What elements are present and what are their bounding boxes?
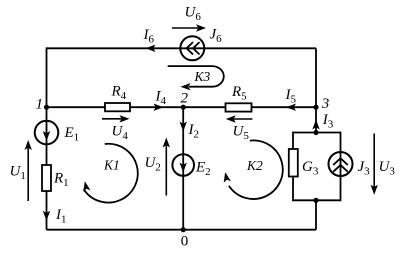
wire: right rail from top rail down to node 3 xyxy=(315,48,317,107)
voltage arrow U2 pointing up xyxy=(165,145,167,196)
svg-text:1: 1 xyxy=(36,97,44,113)
resistor R4 xyxy=(105,103,130,111)
wire: node 3 down to parallel group top junction xyxy=(315,107,317,132)
mesh loop K1 arrow (clockwise arc) xyxy=(84,144,138,203)
EMF source E1 circle xyxy=(35,121,59,145)
wire: G3 branch vertical xyxy=(292,132,294,202)
svg-text:K1: K1 xyxy=(103,158,120,173)
current source J3 double chevron pointing up xyxy=(333,158,348,165)
conductance G3 (resistor box) xyxy=(289,149,298,177)
voltage arrow U3 pointing down xyxy=(373,134,375,188)
node 3 junction dot xyxy=(313,105,318,110)
node 1 junction dot xyxy=(44,105,49,110)
wire: middle branch node 2 down through E2 to node 0 xyxy=(182,107,184,230)
node 2 junction dot xyxy=(181,105,186,110)
svg-text:0: 0 xyxy=(181,233,189,249)
EMF source E1 internal arrow pointing down xyxy=(43,131,50,141)
wire: left rail down to node 1 xyxy=(46,47,48,107)
wire: middle rail node 1 to node 2 xyxy=(47,106,184,108)
current arrow I3 on wire pointing up toward node 3 xyxy=(312,120,319,130)
voltage arrow U6 pointing right xyxy=(172,27,199,29)
svg-text:K3: K3 xyxy=(194,69,211,84)
wire: bottom rail through node 0 xyxy=(47,229,317,231)
voltage arrow U4 pointing right xyxy=(102,118,123,120)
resistor R5 xyxy=(226,103,252,111)
current arrow I1 on wire pointing down xyxy=(43,211,50,221)
mesh loop K3 arrow (flattened U-turn pointing left) xyxy=(168,66,224,87)
wire: J3 branch vertical xyxy=(340,132,342,202)
voltage arrow U1 pointing up xyxy=(27,147,29,201)
wire: parallel group bottom edge xyxy=(293,199,341,201)
current arrow I6 on top rail pointing left xyxy=(146,45,156,52)
wire: top rail from above node 1 to above node 3 xyxy=(47,47,317,49)
mesh loop K2 arrow (clockwise arc) xyxy=(229,140,283,199)
wire: parallel group top edge xyxy=(293,132,341,134)
wire: middle rail node 2 to node 3 xyxy=(183,106,316,108)
wire: left branch node 1 down through E1 and R1 xyxy=(46,107,48,230)
current source J6 circle xyxy=(180,36,204,60)
current arrow I4 on wire pointing right xyxy=(154,104,164,111)
voltage arrow U5 pointing left xyxy=(233,118,252,120)
wire: parallel group bottom junction down to bottom rail xyxy=(315,200,317,229)
EMF source E2 circle xyxy=(172,154,194,176)
svg-text:3: 3 xyxy=(321,96,330,112)
svg-text:K2: K2 xyxy=(246,158,263,173)
current arrow I2 on wire pointing down xyxy=(180,122,187,132)
resistor R1 xyxy=(42,165,51,191)
current source J6 double chevron pointing left xyxy=(187,42,194,54)
current arrow I5 on wire pointing left xyxy=(286,104,296,111)
svg-text:2: 2 xyxy=(181,91,189,107)
EMF source E2 internal arrow pointing down xyxy=(180,163,187,173)
current source J3 circle xyxy=(329,152,353,176)
junction dot at bottom of parallel group xyxy=(313,198,318,203)
junction dot at top of parallel group xyxy=(313,130,318,135)
node 0 junction dot xyxy=(181,227,186,232)
